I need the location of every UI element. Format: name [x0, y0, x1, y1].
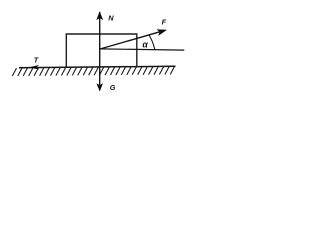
svg-text:T: T [34, 56, 39, 65]
svg-text:N: N [108, 13, 114, 22]
svg-text:α: α [142, 40, 148, 50]
svg-text:F: F [162, 18, 167, 27]
svg-text:G: G [110, 83, 116, 92]
